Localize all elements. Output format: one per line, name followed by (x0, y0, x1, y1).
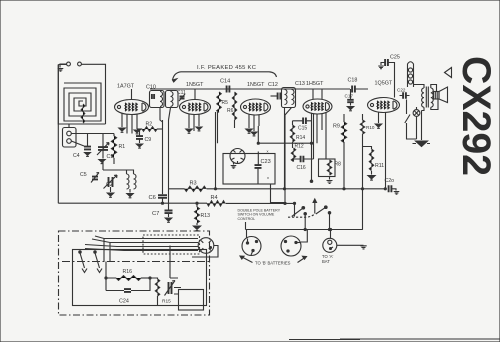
resistor R1 (111, 136, 116, 158)
svg-text:R8: R8 (335, 162, 342, 168)
connector J1 box (63, 128, 77, 148)
wire V3 plate to C12 (271, 95, 278, 97)
svg-text:1H5GT: 1H5GT (306, 81, 324, 87)
bus B (AVC/return) with R3 (169, 188, 386, 190)
wire T3 return down (421, 111, 423, 141)
wire C17 bottom (350, 102, 352, 105)
wires under V4 (312, 113, 327, 182)
resistor R11 (369, 149, 373, 171)
ground below C2 (107, 193, 113, 197)
capacitor C15 (303, 118, 306, 125)
small triangle marker (445, 68, 452, 78)
tube V3 1N5GT (241, 99, 271, 115)
battery plug box (174, 288, 204, 311)
outer control box (dash-dot) (59, 231, 210, 315)
capacitor C12 plates (278, 93, 281, 100)
svg-text:R3: R3 (190, 181, 197, 187)
label R11 (375, 163, 384, 169)
label R13 (201, 213, 211, 219)
label 1N5GT (second) (247, 82, 265, 88)
svg-text:R2: R2 (146, 122, 153, 128)
wire P1 loop (192, 246, 218, 258)
ground below C7 (165, 218, 171, 222)
ground in detector box (231, 166, 237, 169)
resistor R8 (327, 160, 331, 175)
wire L2 bottom (129, 189, 131, 193)
capacitor C25 (385, 59, 388, 66)
cable bundle wires (85, 236, 198, 262)
label R14 (296, 135, 305, 141)
label 1A7GT (117, 84, 135, 90)
label C24 (119, 299, 129, 305)
T3 secondary coil (431, 88, 433, 107)
svg-text:I.F. PEAKED 455 KC: I.F. PEAKED 455 KC (197, 65, 256, 71)
label C5 (80, 172, 87, 178)
IF transformer T2 can (282, 88, 296, 108)
capacitor C16 (301, 156, 304, 163)
svg-text:1N5GT: 1N5GT (247, 82, 265, 88)
wire V1 grid top (131, 89, 133, 100)
label C10 (146, 85, 156, 91)
switch S1 arm 1 (292, 207, 305, 217)
resistor R12 (291, 148, 295, 162)
label C15 (298, 126, 307, 132)
terminal x top (267, 148, 269, 153)
wire R10 lead (362, 114, 364, 230)
wire C1 top (102, 134, 104, 148)
label C13 (295, 81, 305, 87)
resistor R15 (155, 279, 159, 296)
wire J1 pin1 to grid row (71, 133, 114, 135)
wire R11 bottom (371, 171, 373, 175)
label C12 (268, 82, 278, 88)
capacitor C23 (255, 165, 262, 168)
ground right of C20 (394, 192, 400, 195)
wire left edge vertical (antenna to bus) (57, 65, 59, 204)
ground below L2 (127, 194, 133, 198)
wire R2 right (157, 128, 163, 130)
wire under V5 cathode (378, 112, 380, 123)
wire V2 plate drop pair (216, 112, 218, 189)
svg-text:1Q5GT: 1Q5GT (375, 81, 393, 87)
capacitor C7 (165, 211, 173, 214)
connector J1 pin 2 (67, 139, 72, 144)
wire R16 left node (106, 262, 116, 291)
svg-text:C2o: C2o (385, 178, 395, 184)
battery plug P3 (B batt 2) (281, 236, 301, 256)
wire C20 to ground (391, 189, 396, 191)
svg-text:C25: C25 (390, 55, 400, 61)
bottom scan line (289, 338, 500, 341)
wire R16 right node (141, 277, 150, 279)
wire C25 to ground (381, 63, 385, 66)
svg-text:C10: C10 (146, 85, 156, 91)
label C25 (390, 55, 400, 61)
svg-text:C11: C11 (177, 90, 186, 96)
capacitor C18 (352, 86, 355, 93)
trimmer C5 (91, 173, 99, 183)
oscillator coil L2 (127, 174, 137, 189)
switch S1 actuator arrow (313, 199, 316, 214)
loop tap zigzag (81, 104, 85, 123)
resistor R9 (341, 122, 346, 142)
svg-text:R6: R6 (227, 108, 234, 114)
ground under V2 pin a (186, 129, 192, 133)
svg-text:C14: C14 (220, 79, 230, 85)
label to B batteries (255, 261, 291, 266)
wire C9 top (139, 129, 141, 136)
T2 primary coil (285, 90, 288, 105)
capacitor C10 (in T1) (152, 94, 154, 99)
label C2 (106, 182, 113, 188)
arrow left B batteries (240, 256, 253, 263)
svg-text:R13: R13 (201, 213, 211, 219)
wire C6 bottom (162, 198, 164, 203)
svg-text:C2: C2 (106, 182, 113, 188)
wire C9 bottom (139, 139, 141, 143)
wires under V2 (189, 114, 199, 131)
label C23 (261, 159, 271, 165)
label C7 (152, 211, 159, 217)
T1 secondary coil (171, 92, 174, 107)
ground under V3 pin b (251, 132, 257, 136)
wire R11 top (363, 147, 372, 150)
label R12 (295, 144, 304, 150)
wire to plug P3 pin (301, 230, 307, 243)
svg-text:C5: C5 (80, 172, 87, 178)
ground under V3 pin a (246, 129, 252, 133)
svg-text:C15: C15 (298, 126, 307, 132)
ground below C4 (85, 153, 91, 157)
ground under V1 pin (119, 128, 140, 134)
svg-text:C18: C18 (348, 78, 358, 84)
wire C16 leads (294, 159, 314, 162)
wire R14 top (293, 121, 296, 125)
junction dots on buses (105, 142, 386, 279)
wire V2 grid top (194, 89, 196, 100)
wire to plug P2 pin (246, 230, 248, 238)
socket B1 (top view) (230, 149, 245, 164)
ground right of P4 (360, 246, 366, 249)
tube V4 1H5GT (303, 99, 332, 114)
chassis dash-dot line (62, 261, 209, 263)
capacitor C20 (389, 185, 392, 192)
capacitor C14 (227, 86, 230, 93)
label C9 (145, 137, 152, 143)
wire V5 screen drop (385, 112, 387, 189)
wires under V1 (122, 114, 137, 134)
label C22 (397, 88, 406, 93)
label R8 (335, 162, 342, 168)
label to A bat (322, 254, 333, 264)
label R2 (146, 122, 153, 128)
label R16 (123, 269, 133, 275)
switch S2 blade (405, 100, 417, 140)
volume control arrow (165, 246, 179, 296)
output transformer T3 core (426, 87, 428, 108)
twisted pair to output (408, 62, 414, 87)
label double pole battery switch (238, 209, 281, 221)
wire C24 loop (106, 278, 150, 291)
label C14 (220, 79, 230, 85)
connector J1 pin 1 (67, 131, 72, 136)
wire C4 top (87, 134, 89, 147)
svg-text:C13: C13 (295, 81, 305, 87)
capacitor C22 (403, 92, 406, 99)
wire J1 pin2 stub (71, 141, 84, 146)
wire C15 leads (296, 120, 312, 122)
wire T1 bottoms to C6 C7 drops (160, 108, 171, 123)
label R10 (366, 125, 375, 130)
wire S1 pole 1 down (304, 213, 306, 230)
wire R13 top (196, 203, 198, 225)
svg-text:R4: R4 (211, 195, 218, 201)
label R6 (227, 108, 234, 114)
wire C23 top (257, 152, 259, 185)
tube V5 1Q5GT (368, 98, 400, 113)
wire to plug P4 (330, 230, 332, 239)
ground below R8 (327, 177, 333, 184)
wire C7 bottom (168, 213, 170, 217)
wire L2 tops (103, 159, 134, 174)
model number CX292 (454, 56, 498, 176)
wire V4 top connections (313, 89, 322, 100)
antenna terminal A2 (78, 62, 82, 66)
svg-text:R10: R10 (366, 125, 375, 130)
svg-text:BAT: BAT (322, 259, 330, 264)
capacitor C6 (158, 195, 167, 198)
wire P4 to ground (331, 245, 364, 248)
switch S1 dashed link (288, 214, 315, 217)
IF transformer T1 can (150, 91, 179, 108)
terminal x bottom (267, 175, 269, 180)
battery plug P4 (A batt) (323, 238, 337, 252)
label R15 (162, 299, 171, 305)
junction dot V4 drop (310, 180, 312, 182)
svg-text:C16: C16 (297, 165, 306, 171)
label I.F. PEAKED 455 KC (197, 65, 256, 71)
svg-text:C12: C12 (268, 82, 278, 88)
label C1 (107, 154, 114, 160)
capacitor C1 (variable) (97, 143, 109, 156)
wire C17 top (350, 89, 352, 100)
svg-text:R12: R12 (295, 144, 304, 150)
svg-text:CONTROL: CONTROL (238, 217, 256, 221)
capacitor C11 plates (179, 94, 185, 101)
svg-text:C24: C24 (119, 299, 129, 305)
svg-text:x: x (267, 148, 269, 153)
wire C6 drop (162, 120, 164, 194)
wire terminal A2 to box right edge (81, 64, 105, 124)
label 1Q5GT (375, 81, 393, 87)
svg-text:R1: R1 (119, 144, 126, 150)
resistor R4 (207, 201, 225, 206)
IF peaked bracket arrow (173, 72, 277, 82)
tube V1 1A7GT (115, 100, 149, 115)
svg-text:C9: C9 (145, 137, 152, 143)
wire R1 top (113, 134, 115, 137)
wire antenna box to J1 (68, 124, 70, 128)
resistor R3 (185, 186, 207, 191)
label R1 (119, 144, 126, 150)
wire C7 drop (168, 120, 170, 210)
switch S3 contacts (79, 251, 102, 273)
antenna terminal A1 (67, 62, 71, 66)
svg-text:R14: R14 (296, 135, 305, 141)
detector box (223, 154, 275, 185)
wire R9 leads (343, 114, 345, 189)
wire R12 top (292, 142, 294, 148)
ground below terminal A1 (58, 69, 64, 72)
ground below C17 (347, 107, 353, 111)
resistor R16 (116, 276, 141, 281)
ground below C25 wire (378, 66, 384, 69)
wire R1 bottom (113, 158, 115, 164)
label C6 (149, 195, 156, 201)
ground below R13 (193, 226, 200, 231)
svg-text:x: x (267, 175, 269, 180)
label C16 (297, 165, 306, 171)
resistor R6 (232, 92, 236, 120)
resistor R14 (290, 125, 294, 142)
bus A (B- line) with R4 (58, 202, 294, 204)
capacitor C24 (124, 289, 131, 292)
wire V5 to C22 (400, 95, 410, 97)
label R5 (222, 100, 229, 106)
loop antenna L1 spiral (64, 83, 101, 121)
wire T2 bottoms down (271, 108, 292, 203)
wire AVC line (258, 142, 311, 144)
svg-text:C6: C6 (149, 195, 156, 201)
ground under V2 pin b (196, 127, 202, 131)
resistor R13 (195, 207, 200, 223)
svg-text:1N5GT: 1N5GT (186, 82, 204, 88)
svg-text:C7: C7 (152, 211, 159, 217)
svg-text:CX292: CX292 (454, 56, 498, 176)
label C11 (177, 90, 186, 96)
T3 primary coil (422, 88, 424, 107)
svg-text:TO 'B' BATTERIES: TO 'B' BATTERIES (255, 261, 291, 266)
speaker frame (434, 92, 440, 100)
capacitor C2 (variable) (104, 175, 118, 189)
arrow right B batteries (298, 256, 307, 262)
T1 primary coil (160, 92, 163, 107)
speaker cone (439, 87, 448, 103)
ground below R11 (368, 176, 375, 181)
svg-text:R5: R5 (222, 100, 229, 106)
switch S1 arm 2 (316, 206, 327, 214)
tube V2 1N5GT (180, 100, 211, 115)
resistor R5 (217, 92, 221, 112)
wire top bus (plate/B+ line) (150, 88, 368, 90)
resistor R2 (142, 127, 157, 131)
wire bus A to switch S1 (294, 203, 296, 216)
label R3 (190, 181, 197, 187)
wire C25 to V5 plate (388, 63, 395, 98)
pilot lamp (413, 107, 420, 124)
svg-text:R9: R9 (333, 124, 340, 130)
connector P1 (cable plug) (198, 238, 214, 254)
wire C1 bottom (102, 150, 104, 159)
label R9 (333, 124, 340, 130)
svg-text:R15: R15 (162, 299, 171, 305)
cable shield (dotted box) (143, 235, 200, 254)
wire C2 bottom (110, 187, 112, 192)
resistor R10 (360, 120, 364, 134)
svg-text:R11: R11 (375, 163, 384, 169)
capacitor C4 (84, 147, 91, 150)
arrow ground output (413, 141, 431, 147)
battery plug P2 (B batt 1) (242, 237, 261, 256)
label R4 (211, 195, 218, 201)
label C20 (385, 178, 395, 184)
capacitor C9 (136, 136, 143, 139)
T3 wiring (414, 85, 439, 111)
R8 box (319, 159, 336, 177)
battery bus (246, 222, 363, 230)
wire R6 bottom (234, 120, 236, 128)
ground below C1 (99, 160, 105, 164)
svg-text:C17: C17 (345, 94, 354, 99)
antenna box (58, 65, 105, 125)
wires under V3 (249, 115, 259, 144)
label 1N5GT (first) (186, 82, 204, 88)
svg-text:C4: C4 (73, 153, 80, 159)
wire S1 pole 2 down (328, 212, 330, 230)
wire R15 top (150, 278, 158, 306)
svg-text:1A7GT: 1A7GT (117, 84, 135, 90)
wire terminal A1 to ground (60, 64, 67, 68)
svg-text:C22: C22 (397, 88, 406, 93)
wire R2 left (137, 128, 142, 130)
wire socket to ground (233, 162, 235, 165)
T2 secondary coil (292, 90, 295, 105)
ground under V5 (375, 124, 381, 128)
svg-text:C23: C23 (261, 159, 271, 165)
label C18 (348, 78, 358, 84)
svg-text:R16: R16 (123, 269, 133, 275)
inner control box (73, 250, 207, 306)
ground below C9 (136, 144, 142, 148)
label C4 (73, 153, 80, 159)
capacitor C17 (347, 100, 354, 102)
label C17 (345, 94, 354, 99)
label 1H5GT (306, 81, 324, 87)
